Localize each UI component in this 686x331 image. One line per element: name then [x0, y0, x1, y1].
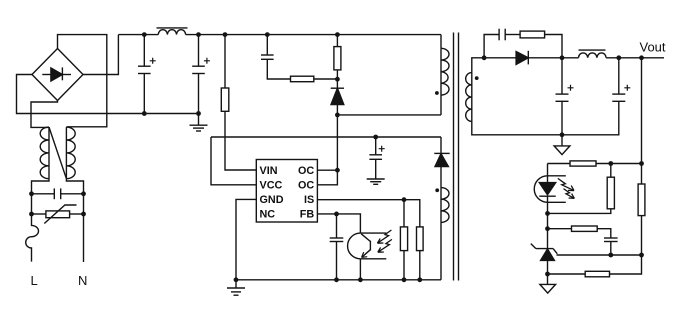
- node rail C1: [142, 32, 147, 37]
- clamp parallel resistor: [334, 35, 341, 80]
- light arrow 1: [377, 230, 391, 243]
- node bus Cfb: [334, 277, 339, 282]
- LED arrow 2: [564, 189, 575, 199]
- wire VCC pin: [211, 137, 256, 185]
- transformer core: [454, 33, 459, 281]
- ground secondary: [554, 135, 570, 155]
- node ref right: [639, 253, 644, 258]
- wire bridge left vertex to B- bus: [17, 75, 199, 114]
- wire cathode column: [547, 213, 549, 248]
- capacitor C vcc: [369, 137, 384, 179]
- optocoupler transistor U2b: [348, 233, 387, 259]
- wire Vout column: [641, 58, 643, 164]
- node ref resistor: [545, 226, 550, 231]
- node rail clamp resistor: [335, 32, 340, 37]
- ground primary bulk: [190, 114, 208, 132]
- wire IS pin: [317, 200, 419, 227]
- ground TL431: [540, 274, 556, 293]
- varistor RV1: [32, 205, 84, 224]
- svg-text:N: N: [78, 273, 87, 288]
- divider resistor lower: [548, 255, 642, 277]
- wire FB pin: [317, 214, 360, 233]
- clamp capacitor: [261, 35, 291, 79]
- wire OC column: [317, 115, 337, 185]
- optocoupler LED U2a: [534, 164, 566, 214]
- bridge rectifier BR1 diamond: [32, 49, 83, 101]
- LED arrow 1: [558, 178, 574, 190]
- svg-text:NC: NC: [260, 209, 276, 221]
- node OC1: [335, 168, 340, 173]
- wire drain to primary: [337, 114, 441, 116]
- sense resistor Rs2: [417, 227, 424, 280]
- X capacitor CX: [32, 188, 84, 199]
- fuse F1: [26, 214, 39, 262]
- primary phase dot: [435, 91, 439, 95]
- diode D aux: [434, 137, 449, 188]
- node bus emitter: [358, 277, 363, 282]
- wire OC1 pin: [317, 169, 337, 171]
- fb top line resistor: [548, 161, 642, 166]
- output cap C3: [556, 58, 574, 135]
- capacitor C1 bulk: [138, 35, 156, 114]
- wire bridge right vertex to B+ riser: [83, 35, 118, 75]
- REF line: [557, 254, 642, 256]
- capacitor C fb: [330, 214, 344, 280]
- resistor R startup: [221, 35, 256, 170]
- svg-text:VCC: VCC: [260, 180, 283, 192]
- svg-text:OC: OC: [298, 180, 314, 192]
- divider resistor upper: [638, 164, 645, 256]
- CM choke right winding: [66, 127, 75, 179]
- secondary phase dot: [475, 76, 479, 80]
- node secondary top: [482, 55, 487, 60]
- node out cap2: [616, 55, 621, 60]
- light arrow 2: [378, 239, 392, 252]
- node sec gnd: [560, 132, 565, 137]
- secondary winding: [466, 58, 620, 135]
- wire choke left bottom to X-cap: [32, 179, 50, 194]
- secondary snubber cap: [484, 29, 520, 58]
- wire choke right bottom to X-cap: [66, 179, 83, 194]
- output cap C4: [612, 58, 630, 135]
- svg-text:FB: FB: [300, 209, 315, 221]
- primary gnd bus: [236, 279, 441, 281]
- node bus Rs1: [402, 277, 407, 282]
- node VCC cap: [373, 135, 378, 140]
- node varistor right: [81, 212, 86, 217]
- node varistor left: [29, 212, 34, 217]
- aux winding: [441, 188, 449, 280]
- svg-text:OC: OC: [298, 165, 314, 177]
- wire bridge bottom vertex to choke left: [31, 101, 58, 128]
- aux phase dot: [435, 188, 439, 192]
- node clamp mid: [335, 77, 340, 82]
- CM choke coupling diagonal: [49, 127, 66, 179]
- svg-text:Vout: Vout: [640, 39, 666, 54]
- CM choke left winding: [40, 127, 49, 179]
- node FB: [334, 212, 339, 217]
- node bus C2: [196, 111, 201, 116]
- wire emitter to bus: [359, 259, 361, 280]
- svg-text:GND: GND: [260, 194, 284, 206]
- primary winding: [441, 35, 449, 115]
- filter inductor L1: [157, 28, 188, 35]
- sense resistor Rs1: [400, 200, 407, 280]
- node bus GND: [234, 277, 239, 282]
- ground IC: [227, 280, 245, 295]
- node drain: [335, 113, 340, 118]
- node fb top right: [639, 161, 644, 166]
- wire right column: [83, 194, 85, 214]
- node diode out: [560, 55, 565, 60]
- clamp series resistor: [291, 76, 338, 82]
- clamp diode: [331, 79, 344, 115]
- node bus Rs2: [417, 277, 422, 282]
- wire neutral: [83, 214, 85, 262]
- wire bridge top vertex to choke right: [58, 35, 107, 127]
- node rail C2: [196, 32, 201, 37]
- capacitor C2 bulk: [192, 35, 210, 114]
- opto bias resistor: [548, 164, 615, 214]
- output inductor L2: [562, 50, 664, 58]
- TL431 U3: [531, 244, 558, 274]
- node Vout: [639, 55, 644, 60]
- ground vcc: [367, 179, 385, 184]
- compensation cap: [604, 238, 618, 255]
- compensation resistor: [548, 226, 611, 238]
- VCC rail: [211, 136, 441, 138]
- svg-text:IS: IS: [304, 194, 314, 206]
- node rail snubber cap: [265, 32, 270, 37]
- node fb top mid: [608, 161, 613, 166]
- node IS: [402, 197, 407, 202]
- wire GND pin: [236, 199, 256, 279]
- bridge diode arrow: [42, 67, 71, 81]
- node bus C1: [142, 111, 147, 116]
- B+ rail: [118, 34, 441, 36]
- secondary snubber resistor: [520, 31, 562, 58]
- node X-cap left: [29, 191, 34, 196]
- op IC U1 box: [256, 160, 317, 223]
- node rail R startup: [223, 32, 228, 37]
- wire left column: [31, 194, 33, 214]
- svg-text:L: L: [31, 273, 38, 288]
- node LED cathode: [545, 211, 550, 216]
- node X-cap right: [81, 191, 86, 196]
- node TL431 anode: [545, 272, 550, 277]
- svg-text:VIN: VIN: [260, 165, 278, 177]
- output diode D out: [484, 51, 562, 65]
- node ref mid: [608, 253, 613, 258]
